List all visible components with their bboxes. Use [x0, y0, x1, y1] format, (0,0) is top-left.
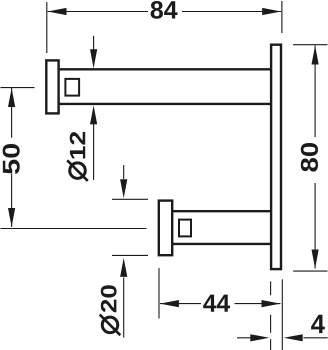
plate bottom left extension line segment 3: [270, 339, 272, 350]
dim diameter 20 top extension line: [112, 198, 148, 200]
label diameter 12 symbol ring: [70, 163, 86, 179]
dim 50 line lower segment: [11, 174, 13, 227]
lower rod top edge: [172, 210, 271, 212]
dim 80 line lower segment: [314, 183, 316, 269]
dim diameter 12 upper arrowhead: [90, 49, 97, 68]
dim 50 top arrowhead: [8, 88, 15, 107]
upper rod top edge: [59, 68, 272, 70]
label diameter 20 symbol slash: [100, 315, 121, 336]
dim 4 right arrowhead: [284, 334, 303, 341]
dim 44 right arrowhead: [262, 300, 281, 307]
dim 84 line left segment: [48, 11, 149, 13]
label 80: [301, 143, 318, 172]
dim 84 right arrowhead: [262, 8, 281, 15]
dim 44 left arrowhead: [160, 300, 179, 307]
lower set screw: [179, 220, 191, 237]
dim 4 right tail line: [304, 337, 328, 339]
lower rod bottom edge: [172, 243, 271, 245]
label 4: [311, 315, 325, 333]
dim 84 left extension line: [46, 2, 48, 53]
upper set screw: [65, 79, 79, 96]
dim diameter 12 lower arrowhead: [90, 105, 97, 124]
dim 44 line right segment: [235, 303, 281, 305]
label diameter 12 symbol slash: [67, 160, 88, 181]
label 44: [203, 295, 230, 312]
dim 80 top extension line: [293, 44, 327, 46]
dim diameter 20 lower arrowhead: [120, 258, 127, 277]
dim 80 bottom arrowhead: [312, 250, 319, 269]
dim 44 left extension line: [158, 268, 160, 318]
dim 50 bottom arrowhead: [8, 208, 15, 227]
lower rosette flange: [159, 201, 172, 256]
dim 4 left arrowhead: [250, 334, 269, 341]
dim diameter 20 lower arrow stem: [123, 278, 125, 338]
upper rosette flange: [46, 60, 58, 113]
dim 84 right extension line: [281, 1, 283, 33]
dim 50 line upper segment: [11, 88, 13, 138]
label diameter 20 digits: [101, 285, 117, 312]
dim 80 line upper segment: [314, 46, 316, 138]
label diameter 12 digits: [70, 132, 86, 159]
plate bottom left extension line segment 1: [270, 281, 272, 295]
upper rod bottom edge: [59, 103, 272, 105]
dim 44 line left segment: [160, 303, 201, 305]
dim 84 line right segment: [182, 11, 281, 13]
dim 84 left arrowhead: [48, 8, 67, 15]
dim 50 top extension line: [1, 87, 35, 89]
label 50: [3, 144, 20, 174]
dim 80 top arrowhead: [312, 46, 319, 65]
dim diameter 20 bottom extension line: [112, 254, 148, 256]
wall plate: [271, 45, 281, 269]
dim 80 bottom extension line: [293, 270, 327, 272]
dim diameter 12 lower arrow stem: [93, 124, 95, 180]
label diameter 20 symbol ring: [102, 317, 118, 333]
plate bottom right extension line: [281, 279, 283, 350]
dim diameter 12 upper arrow stem: [93, 36, 95, 50]
dim 4 left tail line: [237, 337, 251, 339]
dim diameter 20 upper arrowhead: [120, 179, 127, 198]
dim 50 bottom extension line: [1, 228, 147, 230]
label 84: [151, 1, 178, 19]
dim diameter 20 upper arrow stem: [123, 165, 125, 179]
plate bottom left extension line segment 2: [270, 315, 272, 333]
